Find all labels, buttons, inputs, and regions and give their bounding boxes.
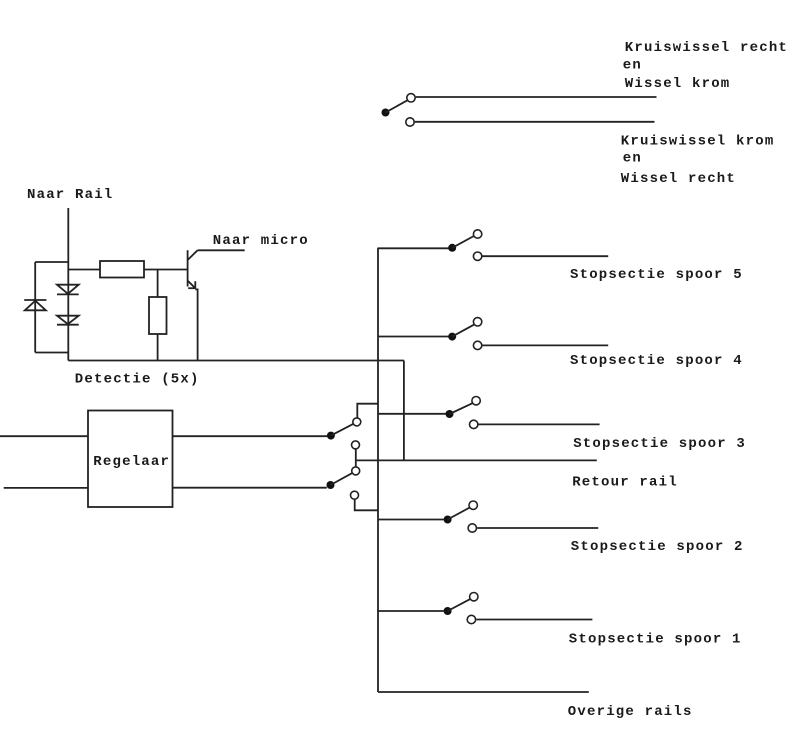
wire kruiswissel-recht line — [416, 96, 657, 98]
switch S1 lever — [452, 236, 474, 248]
wire retour rail line — [356, 459, 597, 461]
switch S2 throw contact 1 — [473, 318, 481, 326]
svg-text:Stopsectie spoor 5: Stopsectie spoor 5 — [570, 267, 743, 283]
svg-text:Wissel recht: Wissel recht — [621, 171, 736, 187]
switch S8 throw contact 1 — [352, 467, 360, 475]
svg-text:Overige rails: Overige rails — [568, 704, 693, 720]
resistor R1 — [100, 261, 144, 278]
diode D1 — [24, 299, 46, 301]
transistor Q1 emitter stroke — [188, 281, 195, 288]
switch S5 throw contact 1 — [470, 593, 478, 601]
svg-text:Stopsectie spoor 2: Stopsectie spoor 2 — [571, 539, 744, 555]
label Kruiswissel recht en Wissel krom — [623, 40, 788, 92]
switch S2 common contact — [448, 333, 456, 341]
switch S2 lever — [452, 325, 474, 337]
svg-text:Kruiswissel recht: Kruiswissel recht — [625, 40, 788, 56]
switch S7 throw contact 2 — [352, 441, 360, 449]
wire regelaar input bottom — [4, 487, 88, 489]
wire base net right — [144, 269, 188, 271]
wire bridge left vertical — [34, 262, 36, 353]
svg-text:Stopsectie spoor 1: Stopsectie spoor 1 — [569, 631, 742, 647]
svg-text:en: en — [623, 151, 642, 167]
wire bridge bottom — [35, 352, 68, 354]
wire bus to S1 (spoor 5) — [378, 247, 449, 249]
wire emitter down — [195, 289, 197, 360]
wire stopsectie spoor 3 — [479, 423, 600, 425]
svg-text:Regelaar: Regelaar — [93, 454, 170, 470]
switch S7 throw contact 1 — [353, 418, 361, 426]
switch S1 common contact — [448, 244, 456, 252]
switch S4 lever — [448, 508, 470, 520]
svg-text:en: en — [623, 58, 642, 74]
switch S5 throw contact 2 — [467, 615, 475, 623]
wire bus to S3 (spoor 3) — [378, 413, 446, 415]
wire stopsectie spoor 5 — [482, 255, 608, 257]
wire bridge top — [35, 261, 68, 263]
switch S6 throw contact 2 — [406, 118, 414, 126]
wire junction drop to R2 — [157, 270, 159, 298]
wire stopsectie spoor 4 — [482, 344, 608, 346]
switch S7 lever — [331, 424, 353, 436]
svg-text:Wissel krom: Wissel krom — [625, 76, 731, 92]
wire stopsectie spoor 1 — [476, 619, 592, 621]
switch S4 common contact — [444, 516, 452, 524]
switch S6 common contact (kruiswissel selector) — [382, 109, 390, 117]
regelaar box U1 — [88, 411, 173, 508]
wire collector to micro — [198, 249, 245, 251]
switch S3 common contact — [446, 410, 454, 418]
switch S5 lever — [448, 599, 471, 611]
switch S8 lever — [331, 473, 353, 485]
wire throw link A2-B1 — [355, 449, 357, 467]
transistor Q1 collector stroke — [188, 250, 198, 260]
svg-text:Stopsectie spoor 4: Stopsectie spoor 4 — [570, 353, 743, 369]
switch S3 throw contact 1 — [472, 397, 480, 405]
switch S8 common contact — [327, 481, 335, 489]
wire stopsectie spoor 2 — [477, 527, 598, 529]
label Kruiswissel krom en Wissel recht — [621, 133, 775, 187]
wire base net left — [68, 269, 100, 271]
switch S7 common contact — [327, 432, 335, 440]
svg-text:Naar micro: Naar micro — [213, 233, 309, 249]
transistor Q1 emitter arrowhead — [194, 281, 196, 288]
diode D2 — [57, 285, 79, 294]
switch S1 throw contact 1 — [473, 230, 481, 238]
svg-text:Naar Rail: Naar Rail — [27, 187, 113, 203]
switch S1 throw contact 2 — [473, 252, 481, 260]
wire R2 to ground bus — [157, 334, 159, 361]
wire main vertical bus — [377, 248, 379, 692]
switch S4 throw contact 1 — [469, 501, 477, 509]
svg-text:Detectie (5x): Detectie (5x) — [75, 371, 200, 387]
switch S5 common contact — [444, 607, 452, 615]
switch S8 throw contact 2 — [351, 491, 359, 499]
switch S4 throw contact 2 — [468, 524, 476, 532]
switch S3 throw contact 2 — [470, 420, 478, 428]
transistor Q1 base bar — [187, 250, 189, 286]
diode D3 — [57, 316, 79, 324]
switch S6 lever — [386, 100, 408, 112]
wire kruiswissel-krom line — [415, 121, 655, 123]
svg-text:Kruiswissel krom: Kruiswissel krom — [621, 133, 775, 149]
wire S8 throw2 to bus — [355, 499, 378, 510]
wire overige rails — [378, 691, 589, 693]
wire regelaar input top — [0, 435, 88, 437]
wire S7 throw1 to bus — [357, 404, 378, 418]
wire bus to S5 (spoor 1) — [378, 610, 444, 612]
wire regelaar out top — [173, 435, 328, 437]
wire detection-to-retour vertical — [403, 361, 405, 461]
resistor R2 — [149, 297, 167, 334]
switch S2 throw contact 2 — [473, 341, 481, 349]
wire detection ground bus — [68, 360, 404, 362]
wire naar-rail vertical — [67, 208, 69, 361]
wire regelaar out bottom — [173, 487, 327, 489]
switch S6 throw contact 1 — [407, 94, 415, 102]
wire bus to S2 (spoor 4) — [378, 336, 449, 338]
svg-text:Retour rail: Retour rail — [572, 475, 678, 491]
svg-text:Stopsectie spoor 3: Stopsectie spoor 3 — [573, 436, 746, 452]
wire bus to S4 (spoor 2) — [378, 519, 444, 521]
switch S3 lever — [450, 403, 473, 414]
